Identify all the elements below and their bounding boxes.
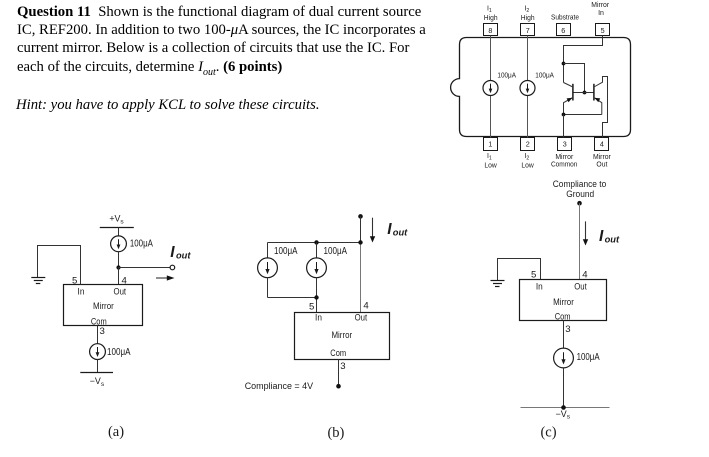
wire top node to rail xyxy=(360,216,362,242)
svg-text:Mirror: Mirror xyxy=(593,154,612,161)
pin label I1 Low xyxy=(484,153,497,170)
svg-text:100μA: 100μA xyxy=(577,352,600,363)
svg-text:−Vs: −Vs xyxy=(556,409,571,421)
svg-text:out: out xyxy=(605,234,620,244)
wire node to mirror out pin 4 xyxy=(118,268,120,285)
wire source 2 to pin 5 xyxy=(316,278,318,313)
wire rail to mirror out pin 4 xyxy=(360,243,362,313)
svg-text:I: I xyxy=(170,244,175,261)
svg-text:4: 4 xyxy=(363,301,369,312)
svg-text:3: 3 xyxy=(340,361,345,372)
current source 100uA (b left) xyxy=(258,258,278,278)
pin 5 box xyxy=(596,24,610,36)
svg-text:In: In xyxy=(598,10,604,17)
current source 100uA (b right) xyxy=(307,258,327,278)
node junction base rail xyxy=(583,91,587,95)
svg-text:4: 4 xyxy=(122,275,128,286)
wire ground node to mirror out pin 4 xyxy=(579,203,581,279)
pin label I2 Low xyxy=(521,153,534,170)
current source I1 100uA xyxy=(483,81,498,96)
wire rail to source 2 xyxy=(316,243,318,259)
wire mirror in pin 5 to ground xyxy=(498,259,541,281)
svg-text:100μA: 100μA xyxy=(274,246,298,257)
svg-text:Low: Low xyxy=(521,163,534,170)
svg-text:(b): (b) xyxy=(327,425,344,441)
svg-text:Common: Common xyxy=(551,161,578,168)
pin label Mirror In xyxy=(591,2,610,17)
svg-text:6: 6 xyxy=(561,26,565,35)
pin label I1 High xyxy=(484,5,498,22)
svg-text:100μA: 100μA xyxy=(497,70,516,79)
node junction rail dot right xyxy=(358,240,362,244)
svg-text:In: In xyxy=(78,287,85,297)
pin 3 box xyxy=(558,138,572,151)
wire source to node xyxy=(118,252,120,268)
pin 2 box xyxy=(521,138,535,151)
transistor Q1 xyxy=(564,83,573,115)
svg-text:Ground: Ground xyxy=(566,189,594,199)
svg-text:4: 4 xyxy=(600,140,604,149)
svg-text:Mirror: Mirror xyxy=(553,297,574,307)
wire to pin3 xyxy=(563,115,565,138)
svg-text:Mirror: Mirror xyxy=(93,301,114,311)
svg-text:Out: Out xyxy=(114,287,127,297)
svg-text:+Vs: +Vs xyxy=(109,214,124,226)
svg-text:Out: Out xyxy=(596,161,607,168)
svg-text:Low: Low xyxy=(484,163,497,170)
pin 6 box xyxy=(557,24,571,36)
wire +Vs to source xyxy=(118,228,120,237)
mirror box (b) xyxy=(295,313,390,360)
svg-text:I1: I1 xyxy=(487,153,492,162)
wire I2 to pin2 xyxy=(527,96,529,138)
mirror box (a) xyxy=(64,285,143,326)
top node dot (b) xyxy=(358,214,363,219)
wire mirror com pin 3 to source xyxy=(563,321,565,349)
svg-text:I: I xyxy=(599,228,604,245)
wire mirror com pin 3 to source xyxy=(97,326,99,344)
svg-text:Out: Out xyxy=(355,312,368,322)
svg-text:Com: Com xyxy=(330,348,346,358)
Iout label (c) xyxy=(599,228,620,245)
svg-text:High: High xyxy=(521,15,535,22)
svg-text:I2: I2 xyxy=(524,153,529,162)
ground symbol (a) xyxy=(31,278,45,284)
Iout arrow (b) xyxy=(370,218,375,243)
top node dot (c) xyxy=(577,201,582,206)
svg-text:Compliance to: Compliance to xyxy=(553,179,607,189)
svg-text:100μA: 100μA xyxy=(130,239,153,250)
svg-text:Mirror: Mirror xyxy=(591,2,610,9)
wire base rail xyxy=(573,92,594,94)
svg-text:Com: Com xyxy=(555,311,571,321)
node junction emitter rail xyxy=(562,113,566,117)
mirror box (c) xyxy=(520,280,607,321)
svg-text:5: 5 xyxy=(309,302,314,313)
current source 100uA (c) xyxy=(554,348,574,368)
svg-text:I: I xyxy=(387,221,392,238)
Iout label (b) xyxy=(387,221,408,238)
svg-text:Out: Out xyxy=(574,282,587,292)
pin 8 box xyxy=(484,24,498,36)
current source I2 100uA xyxy=(520,81,535,96)
svg-text:3: 3 xyxy=(565,324,570,335)
node junction (b) xyxy=(314,295,318,299)
svg-text:100μA: 100μA xyxy=(324,246,348,257)
terminal dot (b) xyxy=(336,384,341,389)
Iout arrow (c) xyxy=(583,221,588,245)
wire mirror in pin 5 to ground xyxy=(38,246,81,285)
wire pin5 to mirror input xyxy=(564,36,603,83)
svg-text:High: High xyxy=(484,15,498,22)
svg-text:In: In xyxy=(536,282,543,292)
wire mirror com pin 3 to terminal xyxy=(338,360,340,387)
svg-text:100μA: 100μA xyxy=(107,347,131,358)
wire pin7 to I2 xyxy=(527,36,529,81)
svg-text:In: In xyxy=(315,312,322,322)
pin 1 box xyxy=(484,138,498,151)
svg-text:1: 1 xyxy=(488,140,492,149)
pin 7 box xyxy=(521,24,535,36)
svg-text:3: 3 xyxy=(100,326,105,337)
svg-text:I2: I2 xyxy=(524,5,529,14)
svg-text:100μA: 100μA xyxy=(535,70,554,79)
pin 4 box xyxy=(595,138,609,151)
transistor Q2 xyxy=(594,77,608,138)
svg-text:Compliance = 4V: Compliance = 4V xyxy=(245,381,313,391)
node junction output (a) xyxy=(116,265,120,269)
svg-text:out: out xyxy=(393,227,408,237)
node junction on -Vs rail xyxy=(561,405,566,410)
wire rail to source 1 xyxy=(267,243,269,259)
wire I1 to pin1 xyxy=(490,96,492,138)
svg-text:Substrate: Substrate xyxy=(551,15,579,22)
ground symbol (c) xyxy=(491,281,505,287)
svg-text:5: 5 xyxy=(601,26,605,35)
svg-text:5: 5 xyxy=(72,275,77,286)
svg-text:Mirror: Mirror xyxy=(555,154,574,161)
output terminal (a) xyxy=(170,265,175,270)
svg-text:I1: I1 xyxy=(487,5,492,14)
pin label Mirror Common xyxy=(551,154,578,168)
wire node to terminal xyxy=(119,267,171,269)
-Vs supply bar (a) xyxy=(80,372,113,374)
svg-text:out: out xyxy=(176,250,191,260)
svg-text:(a): (a) xyxy=(108,424,124,440)
IC REF200 body xyxy=(451,38,631,137)
svg-text:Mirror: Mirror xyxy=(331,330,352,340)
pin label I2 High xyxy=(521,5,535,22)
wire source to -Vs xyxy=(97,360,99,373)
current source 100uA (a bottom) xyxy=(90,344,106,360)
Iout arrow (a) xyxy=(156,275,175,280)
svg-text:7: 7 xyxy=(526,26,530,35)
wire pin8 to I1 xyxy=(490,36,492,81)
-Vs rail (c) xyxy=(521,407,610,409)
svg-text:−Vs: −Vs xyxy=(90,376,105,388)
node junction rail dot mid xyxy=(314,240,318,244)
svg-text:8: 8 xyxy=(488,26,492,35)
node junction mirror input xyxy=(562,62,566,66)
svg-text:2: 2 xyxy=(526,140,530,149)
wire source 1 to bottom rail xyxy=(267,278,269,298)
svg-text:3: 3 xyxy=(563,140,567,149)
current source 100uA (a top) xyxy=(111,236,127,252)
+Vs supply bar xyxy=(100,227,134,229)
Iout label (a) xyxy=(170,244,191,261)
wire base tap xyxy=(564,64,585,93)
bottom rail (b) xyxy=(268,297,317,299)
svg-text:Com: Com xyxy=(91,316,107,326)
pin label Mirror Out xyxy=(593,154,612,168)
svg-text:(c): (c) xyxy=(540,425,556,441)
top rail (b) xyxy=(268,242,361,244)
wire source to -Vs rail xyxy=(563,368,565,408)
net label Compliance to Ground xyxy=(553,179,607,199)
wire emitter rail xyxy=(564,114,602,116)
